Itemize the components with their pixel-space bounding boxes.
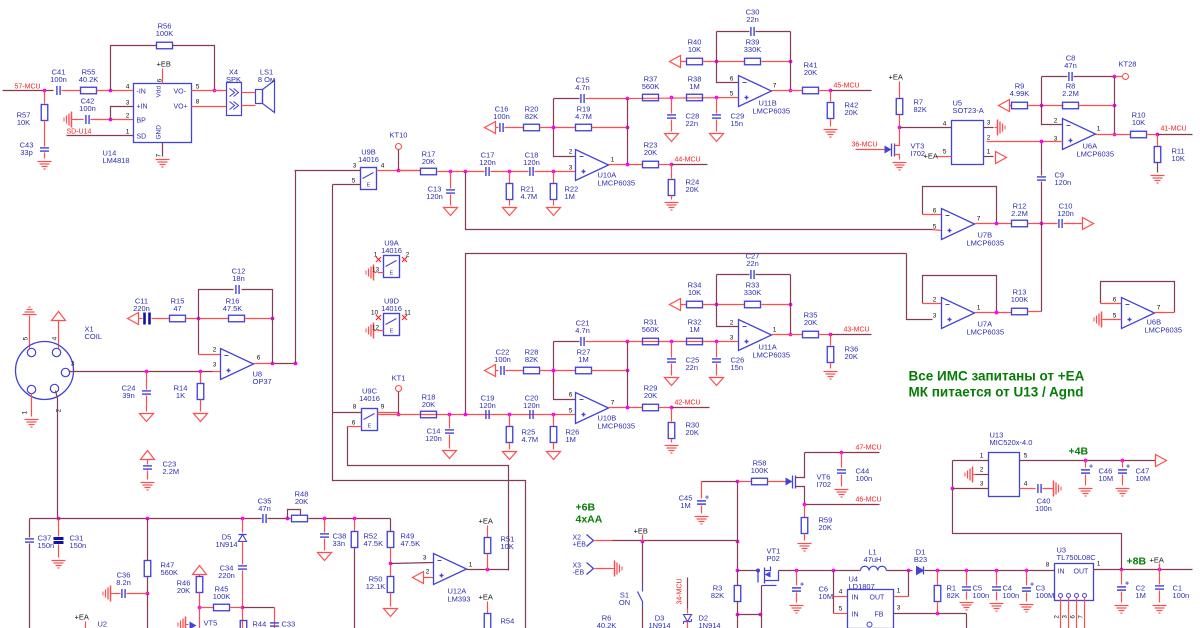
svg-text:+EA: +EA xyxy=(479,593,493,602)
svg-text:20K: 20K xyxy=(422,400,435,409)
svg-text:1M: 1M xyxy=(689,82,699,91)
svg-text:+: + xyxy=(1126,464,1130,471)
svg-text:14016: 14016 xyxy=(359,394,380,403)
svg-text:5: 5 xyxy=(196,84,200,91)
svg-text:13: 13 xyxy=(372,267,380,274)
svg-text:LMCP6035: LMCP6035 xyxy=(967,328,1005,337)
svg-text:100M: 100M xyxy=(1036,591,1055,600)
svg-text:+EA: +EA xyxy=(479,517,493,526)
svg-text:KT28: KT28 xyxy=(1119,60,1137,69)
svg-text:5: 5 xyxy=(730,91,734,98)
svg-text:7: 7 xyxy=(1157,305,1161,312)
svg-text:+EA: +EA xyxy=(889,73,903,82)
svg-text:100K: 100K xyxy=(213,592,231,601)
svg-text:7: 7 xyxy=(156,153,163,157)
svg-text:20K: 20K xyxy=(845,108,858,117)
svg-text:41-MCU: 41-MCU xyxy=(1161,126,1187,133)
svg-text:1N914: 1N914 xyxy=(699,621,721,628)
svg-text:KT1: KT1 xyxy=(392,374,406,383)
svg-text:22n: 22n xyxy=(686,119,699,128)
svg-text:2: 2 xyxy=(933,297,937,304)
svg-text:-EB: -EB xyxy=(573,570,585,577)
svg-text:14016: 14016 xyxy=(358,155,379,164)
svg-text:100n: 100n xyxy=(79,104,96,113)
svg-text:MIC520x-4.0: MIC520x-4.0 xyxy=(990,438,1033,447)
svg-text:2: 2 xyxy=(426,569,430,576)
svg-text:20K: 20K xyxy=(644,148,657,157)
svg-text:6: 6 xyxy=(730,76,734,83)
svg-text:2: 2 xyxy=(1054,118,1058,125)
svg-text:6: 6 xyxy=(157,78,164,82)
svg-text:U2: U2 xyxy=(98,620,108,628)
svg-text:20K: 20K xyxy=(804,68,817,77)
svg-text:7: 7 xyxy=(611,400,615,407)
svg-text:10: 10 xyxy=(371,310,379,317)
svg-text:47n: 47n xyxy=(258,504,271,513)
svg-text:SOT23-A: SOT23-A xyxy=(953,106,984,115)
svg-text:5: 5 xyxy=(23,336,30,340)
svg-text:5: 5 xyxy=(839,606,843,613)
svg-text:33n: 33n xyxy=(333,539,346,548)
svg-text:47.5K: 47.5K xyxy=(364,539,384,548)
svg-text:6: 6 xyxy=(257,355,261,362)
svg-text:1: 1 xyxy=(897,588,901,595)
svg-text:LMCP6035: LMCP6035 xyxy=(1145,326,1183,335)
svg-text:+EB: +EB xyxy=(573,542,587,549)
svg-text:LMCP6035: LMCP6035 xyxy=(598,179,636,188)
svg-text:10M: 10M xyxy=(1099,474,1114,483)
svg-text:45-MCU: 45-MCU xyxy=(834,83,860,90)
svg-text:+: + xyxy=(1089,464,1093,471)
svg-text:120n: 120n xyxy=(523,158,540,167)
svg-text:4.99K: 4.99K xyxy=(1010,89,1030,98)
svg-text:47uH: 47uH xyxy=(864,555,882,564)
svg-text:120n: 120n xyxy=(425,434,442,443)
svg-text:100K: 100K xyxy=(1011,295,1029,304)
svg-text:20K: 20K xyxy=(845,352,858,361)
svg-text:2: 2 xyxy=(213,347,217,354)
svg-text:VT5: VT5 xyxy=(204,619,218,628)
svg-text:8: 8 xyxy=(353,404,357,411)
svg-text:SPK: SPK xyxy=(226,75,241,84)
svg-text:1: 1 xyxy=(374,252,378,259)
svg-text:VO-: VO- xyxy=(174,89,187,96)
svg-text:3: 3 xyxy=(569,165,573,172)
svg-text:1N914: 1N914 xyxy=(215,540,237,549)
svg-text:1K: 1K xyxy=(176,391,185,400)
svg-text:100n: 100n xyxy=(493,112,510,121)
svg-text:18n: 18n xyxy=(232,274,245,283)
svg-text:+8B: +8B xyxy=(1127,556,1147,568)
svg-text:82K: 82K xyxy=(525,355,538,364)
svg-text:BP: BP xyxy=(137,118,147,125)
svg-text:3: 3 xyxy=(353,163,357,170)
svg-text:1: 1 xyxy=(987,149,991,156)
svg-text:1M: 1M xyxy=(565,192,575,201)
svg-text:3: 3 xyxy=(423,555,427,562)
svg-text:1: 1 xyxy=(611,157,615,164)
svg-text:1: 1 xyxy=(126,129,130,136)
svg-text:IN: IN xyxy=(1058,569,1065,576)
svg-text:10K: 10K xyxy=(688,45,701,54)
svg-text:1M: 1M xyxy=(689,325,699,334)
svg-text:100n: 100n xyxy=(856,474,873,483)
svg-text:46-MCU: 46-MCU xyxy=(856,497,882,504)
svg-text:47: 47 xyxy=(173,304,181,313)
svg-text:4xAA: 4xAA xyxy=(576,514,603,526)
svg-text:LD1807: LD1807 xyxy=(849,582,875,591)
svg-text:15n: 15n xyxy=(731,363,744,372)
svg-text:82K: 82K xyxy=(947,591,960,600)
svg-text:20K: 20K xyxy=(686,185,699,194)
svg-text:100n: 100n xyxy=(1035,504,1052,513)
svg-text:20K: 20K xyxy=(686,428,699,437)
svg-text:8: 8 xyxy=(1046,562,1050,569)
svg-text:Все ИМС запитаны от +ЕА: Все ИМС запитаны от +ЕА xyxy=(909,369,1085,384)
svg-text:ON: ON xyxy=(619,598,630,607)
svg-text:34-MCU: 34-MCU xyxy=(677,578,684,604)
svg-text:5: 5 xyxy=(1113,313,1117,320)
svg-text:+EA: +EA xyxy=(75,613,89,622)
svg-text:C33: C33 xyxy=(282,620,296,628)
svg-text:4.7M: 4.7M xyxy=(522,435,539,444)
svg-text:TL750L08C: TL750L08C xyxy=(1057,553,1097,562)
svg-text:47-MCU: 47-MCU xyxy=(856,445,882,452)
svg-text:2: 2 xyxy=(730,320,734,327)
svg-text:100K: 100K xyxy=(751,466,769,475)
svg-text:-IN: -IN xyxy=(137,89,146,96)
svg-text:40.2K: 40.2K xyxy=(597,621,617,628)
svg-text:47n: 47n xyxy=(1064,61,1077,70)
svg-text:150n: 150n xyxy=(70,541,87,550)
svg-text:10K: 10K xyxy=(1132,118,1145,127)
svg-text:IN: IN xyxy=(852,595,859,602)
svg-text:12: 12 xyxy=(372,325,380,332)
svg-text:SD: SD xyxy=(137,134,147,141)
svg-text:LMCP6035: LMCP6035 xyxy=(1077,150,1115,159)
svg-text:3: 3 xyxy=(980,481,984,488)
svg-text:82K: 82K xyxy=(525,112,538,121)
svg-text:42-MCU: 42-MCU xyxy=(675,400,701,407)
svg-text:20K: 20K xyxy=(177,586,190,595)
svg-text:3: 3 xyxy=(71,361,75,368)
svg-text:220n: 220n xyxy=(218,571,235,580)
svg-text:20K: 20K xyxy=(295,497,308,506)
svg-text:6: 6 xyxy=(933,208,937,215)
svg-text:39n: 39n xyxy=(122,391,135,400)
svg-text:3: 3 xyxy=(897,605,901,612)
svg-text:P02: P02 xyxy=(767,554,780,563)
svg-text:FB: FB xyxy=(875,612,884,619)
svg-text:2: 2 xyxy=(980,467,984,474)
svg-text:560K: 560K xyxy=(642,325,660,334)
svg-text:22n: 22n xyxy=(746,259,759,268)
svg-text:7: 7 xyxy=(773,83,777,90)
svg-text:Vdd: Vdd xyxy=(156,86,163,98)
svg-text:5: 5 xyxy=(943,149,947,156)
svg-text:2: 2 xyxy=(569,149,573,156)
svg-text:100n: 100n xyxy=(494,355,511,364)
svg-text:+: + xyxy=(800,582,804,589)
svg-text:100n: 100n xyxy=(973,591,990,600)
svg-text:82K: 82K xyxy=(914,105,927,114)
svg-text:LMCP6035: LMCP6035 xyxy=(967,239,1005,248)
svg-text:20K: 20K xyxy=(804,318,817,327)
svg-text:LM4818: LM4818 xyxy=(103,156,130,165)
svg-text:22n: 22n xyxy=(686,363,699,372)
svg-text:B23: B23 xyxy=(914,555,927,564)
svg-text:6: 6 xyxy=(352,420,356,427)
svg-text:14016: 14016 xyxy=(381,246,402,255)
svg-text:2.2M: 2.2M xyxy=(1011,209,1028,218)
svg-text:KT10: KT10 xyxy=(390,131,408,140)
svg-text:VO+: VO+ xyxy=(174,104,188,111)
svg-text:11: 11 xyxy=(404,310,411,317)
svg-text:4.7M: 4.7M xyxy=(521,192,538,201)
svg-text:20K: 20K xyxy=(644,391,657,400)
svg-text:220n: 220n xyxy=(133,304,150,313)
svg-text:22n: 22n xyxy=(746,15,759,24)
svg-text:4: 4 xyxy=(126,84,130,91)
svg-text:4.7M: 4.7M xyxy=(575,112,592,121)
svg-text:3: 3 xyxy=(730,335,734,342)
svg-text:40.2K: 40.2K xyxy=(79,75,99,84)
svg-text:1: 1 xyxy=(1097,126,1101,133)
svg-text:100K: 100K xyxy=(156,29,174,38)
svg-text:OUT: OUT xyxy=(1074,569,1090,576)
svg-text:OP37: OP37 xyxy=(253,377,272,386)
svg-text:8: 8 xyxy=(196,99,200,106)
svg-text:R44: R44 xyxy=(253,620,267,628)
svg-text:3: 3 xyxy=(987,120,991,127)
svg-text:E: E xyxy=(390,329,394,335)
svg-text:LMCP6035: LMCP6035 xyxy=(753,107,791,116)
svg-text:1N914: 1N914 xyxy=(648,621,670,628)
svg-text:6: 6 xyxy=(1113,297,1117,304)
svg-text:2: 2 xyxy=(987,135,991,142)
svg-text:+4B: +4B xyxy=(1069,446,1089,458)
svg-text:2.2M: 2.2M xyxy=(163,467,180,476)
svg-text:36-MCU: 36-MCU xyxy=(852,142,878,149)
svg-text:2: 2 xyxy=(56,408,63,412)
svg-text:4.7n: 4.7n xyxy=(575,83,590,92)
svg-text:4: 4 xyxy=(839,589,843,596)
svg-text:IN: IN xyxy=(852,612,859,619)
svg-text:47.5K: 47.5K xyxy=(223,304,243,313)
svg-text:+: + xyxy=(1030,582,1034,589)
svg-text:120n: 120n xyxy=(479,158,496,167)
svg-text:7: 7 xyxy=(977,216,981,223)
svg-text:44-MCU: 44-MCU xyxy=(675,157,701,164)
svg-text:I702: I702 xyxy=(817,480,832,489)
svg-text:20K: 20K xyxy=(819,523,832,532)
svg-text:LMCP6035: LMCP6035 xyxy=(753,351,791,360)
svg-text:1M: 1M xyxy=(578,355,588,364)
svg-text:COIL: COIL xyxy=(85,332,103,341)
svg-text:330K: 330K xyxy=(744,45,762,54)
svg-text:5: 5 xyxy=(352,178,356,185)
svg-text:4: 4 xyxy=(943,121,947,128)
svg-text:3: 3 xyxy=(126,100,130,107)
svg-text:4: 4 xyxy=(1024,481,1028,488)
svg-text:E: E xyxy=(367,183,371,189)
svg-text:100n: 100n xyxy=(50,75,67,84)
svg-text:+EB: +EB xyxy=(157,60,171,69)
svg-text:10K: 10K xyxy=(1172,154,1185,163)
svg-text:+IN: +IN xyxy=(137,104,148,111)
svg-text:8 Ом: 8 Ом xyxy=(258,75,275,84)
svg-text:10M: 10M xyxy=(1136,474,1151,483)
svg-text:1: 1 xyxy=(977,305,981,312)
svg-text:LM393: LM393 xyxy=(448,595,471,604)
svg-text:4: 4 xyxy=(381,163,385,170)
svg-text:1: 1 xyxy=(22,410,29,414)
svg-text:3: 3 xyxy=(213,362,217,369)
svg-text:4: 4 xyxy=(52,336,59,340)
svg-text:120n: 120n xyxy=(426,192,443,201)
svg-text:10K: 10K xyxy=(688,288,701,297)
svg-text:330K: 330K xyxy=(744,288,762,297)
svg-text:X2: X2 xyxy=(573,535,582,542)
svg-text:+: + xyxy=(705,495,709,502)
svg-text:560K: 560K xyxy=(161,568,179,577)
svg-text:14016: 14016 xyxy=(381,304,402,313)
svg-text:SD-U14: SD-U14 xyxy=(67,129,92,136)
svg-text:LMCP6035: LMCP6035 xyxy=(598,422,636,431)
svg-text:5: 5 xyxy=(569,408,573,415)
svg-text:82K: 82K xyxy=(711,591,724,600)
svg-text:43-MCU: 43-MCU xyxy=(844,327,870,334)
svg-text:E: E xyxy=(390,271,394,277)
svg-text:20K: 20K xyxy=(422,157,435,166)
svg-text:4.7n: 4.7n xyxy=(575,326,590,335)
svg-text:1M: 1M xyxy=(680,501,690,510)
svg-text:8.2n: 8.2n xyxy=(116,578,131,587)
svg-text:+EA: +EA xyxy=(1150,556,1164,565)
svg-text:47.5K: 47.5K xyxy=(401,539,421,548)
svg-text:МК питается от U13 / Agnd: МК питается от U13 / Agnd xyxy=(909,385,1084,400)
svg-text:2: 2 xyxy=(406,252,410,259)
svg-text:2.2M: 2.2M xyxy=(1062,89,1079,98)
svg-text:10M: 10M xyxy=(819,592,834,601)
svg-text:3: 3 xyxy=(933,313,937,320)
svg-text:15n: 15n xyxy=(731,119,744,128)
svg-text:9: 9 xyxy=(381,404,385,411)
svg-text:1: 1 xyxy=(980,453,984,460)
svg-text:6: 6 xyxy=(569,392,573,399)
svg-text:2: 2 xyxy=(126,113,130,120)
svg-text:100n: 100n xyxy=(1173,591,1190,600)
svg-text:GND: GND xyxy=(156,125,163,140)
svg-text:100n: 100n xyxy=(1003,591,1020,600)
svg-text:+EA: +EA xyxy=(924,152,938,161)
svg-text:1: 1 xyxy=(773,327,777,334)
svg-text:120n: 120n xyxy=(479,401,496,410)
svg-text:10K: 10K xyxy=(501,542,514,551)
svg-text:33p: 33p xyxy=(20,148,33,157)
svg-text:+: + xyxy=(1125,581,1129,588)
svg-text:1M: 1M xyxy=(1136,591,1146,600)
svg-text:57-MCU: 57-MCU xyxy=(15,84,41,91)
svg-text:5: 5 xyxy=(1024,453,1028,460)
svg-text:150n: 150n xyxy=(38,541,55,550)
svg-text:+6B: +6B xyxy=(576,502,596,514)
svg-text:10K: 10K xyxy=(17,118,30,127)
svg-text:OUT: OUT xyxy=(870,595,886,602)
svg-text:12.1K: 12.1K xyxy=(366,582,386,591)
svg-text:X3: X3 xyxy=(573,563,582,570)
svg-text:560K: 560K xyxy=(642,82,660,91)
svg-text:1: 1 xyxy=(469,562,473,569)
svg-text:1M: 1M xyxy=(566,435,576,444)
svg-text:+EB: +EB xyxy=(634,527,648,536)
svg-text:R54: R54 xyxy=(501,617,515,626)
svg-text:1: 1 xyxy=(1097,561,1101,568)
svg-text:E: E xyxy=(368,424,372,430)
svg-text:5: 5 xyxy=(933,224,937,231)
svg-text:120n: 120n xyxy=(523,401,540,410)
svg-text:120n: 120n xyxy=(1055,178,1072,187)
svg-text:120n: 120n xyxy=(1057,209,1074,218)
